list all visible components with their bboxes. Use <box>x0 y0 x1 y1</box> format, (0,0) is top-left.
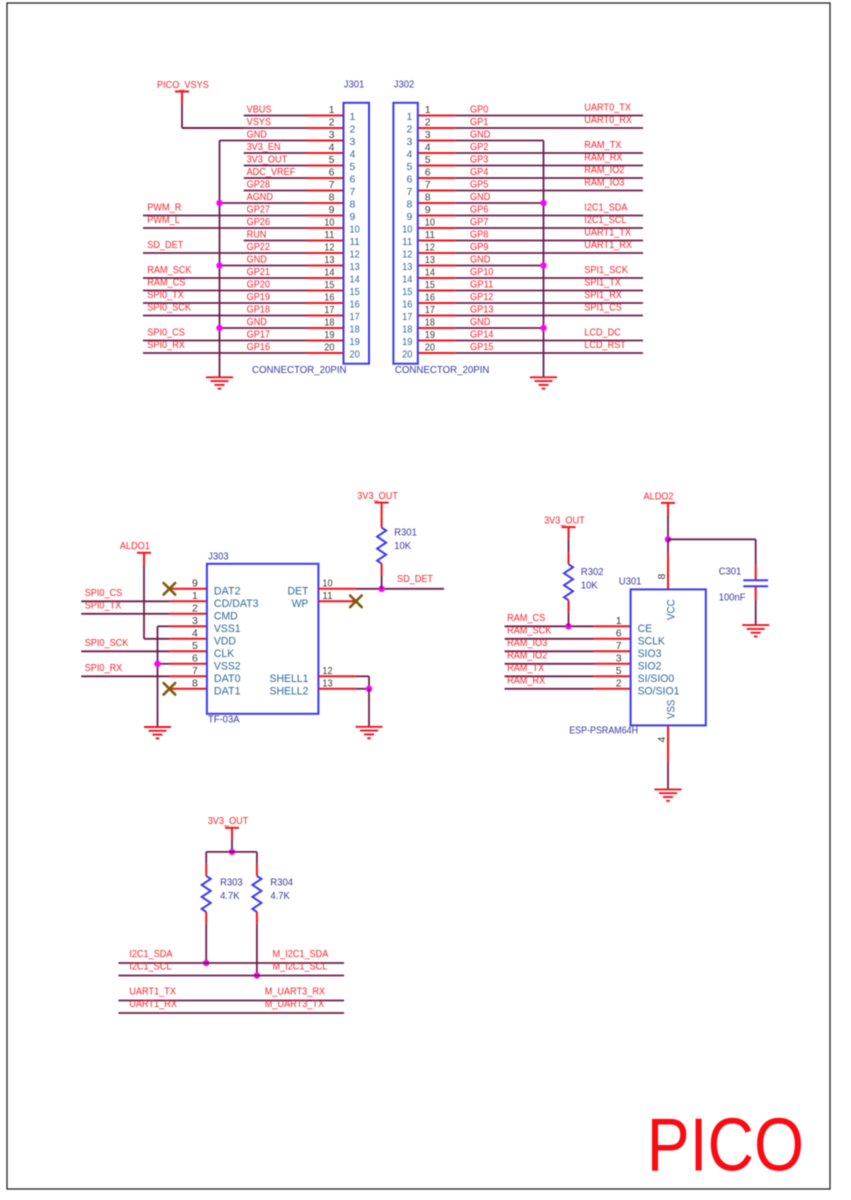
svg-text:8: 8 <box>192 677 198 689</box>
svg-text:3: 3 <box>192 615 198 627</box>
svg-text:5: 5 <box>425 154 431 166</box>
svg-text:GP21: GP21 <box>247 266 271 278</box>
svg-text:13: 13 <box>425 254 435 266</box>
svg-text:GP3: GP3 <box>470 154 488 166</box>
svg-text:ALDO2: ALDO2 <box>644 490 674 502</box>
svg-text:CONNECTOR_20PIN: CONNECTOR_20PIN <box>252 364 347 376</box>
svg-text:GP20: GP20 <box>247 279 271 291</box>
svg-text:VSS: VSS <box>666 700 678 719</box>
svg-text:SHELL1: SHELL1 <box>270 673 309 685</box>
svg-text:SIO3: SIO3 <box>638 648 662 660</box>
svg-text:J303: J303 <box>208 550 229 562</box>
svg-text:ESP-PSRAM64H: ESP-PSRAM64H <box>569 725 638 737</box>
svg-text:11: 11 <box>324 229 334 241</box>
svg-text:RUN: RUN <box>247 229 267 241</box>
svg-text:10: 10 <box>350 224 360 236</box>
svg-text:3: 3 <box>425 129 431 141</box>
svg-text:GP18: GP18 <box>247 304 271 316</box>
svg-text:GP19: GP19 <box>247 291 271 303</box>
svg-text:16: 16 <box>402 299 412 311</box>
svg-text:15: 15 <box>324 279 334 291</box>
svg-text:3: 3 <box>406 136 412 148</box>
svg-text:1: 1 <box>406 111 412 123</box>
svg-text:VSS2: VSS2 <box>214 660 241 672</box>
svg-text:3V3_OUT: 3V3_OUT <box>247 154 288 166</box>
svg-text:SPI1_SCK: SPI1_SCK <box>584 264 628 276</box>
svg-text:I2C1_SDA: I2C1_SDA <box>129 948 172 960</box>
svg-text:GP7: GP7 <box>470 216 488 228</box>
svg-text:14: 14 <box>425 267 435 279</box>
svg-text:13: 13 <box>324 254 334 266</box>
svg-text:RAM_IO3: RAM_IO3 <box>507 637 547 649</box>
svg-text:RAM_SCK: RAM_SCK <box>147 264 191 276</box>
svg-text:GP5: GP5 <box>470 179 488 191</box>
svg-text:GP12: GP12 <box>470 291 494 303</box>
svg-text:1: 1 <box>350 111 356 123</box>
svg-text:VCC: VCC <box>666 599 678 620</box>
svg-text:SPI1_TX: SPI1_TX <box>584 277 621 289</box>
svg-text:SPI0_SCK: SPI0_SCK <box>147 302 191 314</box>
svg-text:5: 5 <box>350 161 356 173</box>
svg-text:4: 4 <box>406 149 412 161</box>
svg-text:TF-03A: TF-03A <box>208 714 240 726</box>
svg-text:3: 3 <box>329 129 335 141</box>
svg-text:5: 5 <box>406 161 412 173</box>
svg-text:RAM_IO3: RAM_IO3 <box>584 177 624 189</box>
svg-text:GP11: GP11 <box>470 279 494 291</box>
svg-text:9: 9 <box>192 577 198 589</box>
svg-text:RAM_RX: RAM_RX <box>507 674 545 686</box>
svg-text:4: 4 <box>329 142 335 154</box>
svg-text:1: 1 <box>616 615 622 627</box>
svg-text:17: 17 <box>425 304 435 316</box>
svg-text:100nF: 100nF <box>719 591 746 603</box>
svg-text:AGND: AGND <box>247 191 274 203</box>
svg-text:M_UART3_RX: M_UART3_RX <box>265 986 325 998</box>
svg-text:RAM_IO2: RAM_IO2 <box>584 164 624 176</box>
svg-text:SIO2: SIO2 <box>638 660 662 672</box>
svg-text:3: 3 <box>616 652 622 664</box>
svg-text:M_I2C1_SDA: M_I2C1_SDA <box>273 948 329 960</box>
svg-text:14: 14 <box>402 274 412 286</box>
svg-text:2: 2 <box>425 117 431 129</box>
svg-text:10K: 10K <box>581 579 598 591</box>
svg-text:GND: GND <box>247 129 268 141</box>
svg-text:20: 20 <box>425 342 435 354</box>
svg-text:CE: CE <box>638 623 653 635</box>
svg-text:SCLK: SCLK <box>638 635 666 647</box>
svg-text:PWM_R: PWM_R <box>147 202 181 214</box>
svg-text:GP16: GP16 <box>247 341 271 353</box>
svg-text:19: 19 <box>324 329 334 341</box>
svg-text:3: 3 <box>350 136 356 148</box>
svg-text:3V3_EN: 3V3_EN <box>247 141 281 153</box>
svg-text:10: 10 <box>425 217 435 229</box>
svg-text:9: 9 <box>329 204 335 216</box>
svg-text:7: 7 <box>406 186 412 198</box>
svg-text:3V3_OUT: 3V3_OUT <box>357 490 398 502</box>
svg-text:12: 12 <box>322 665 332 677</box>
svg-text:RAM_CS: RAM_CS <box>507 612 545 624</box>
svg-text:14: 14 <box>350 274 360 286</box>
svg-text:5: 5 <box>192 640 198 652</box>
svg-text:18: 18 <box>324 317 334 329</box>
svg-text:8: 8 <box>656 574 668 580</box>
svg-text:SI/SIO0: SI/SIO0 <box>638 673 675 685</box>
svg-text:GP1: GP1 <box>470 116 488 128</box>
svg-text:10K: 10K <box>394 540 411 552</box>
svg-text:4: 4 <box>656 737 668 743</box>
svg-text:SO/SIO1: SO/SIO1 <box>638 685 680 697</box>
svg-text:SD_DET: SD_DET <box>147 239 183 251</box>
svg-text:19: 19 <box>402 336 412 348</box>
svg-text:GP9: GP9 <box>470 241 488 253</box>
svg-text:GND: GND <box>470 191 491 203</box>
svg-text:R302: R302 <box>581 566 604 578</box>
svg-text:RAM_IO2: RAM_IO2 <box>507 649 547 661</box>
svg-text:ALDO1: ALDO1 <box>120 540 150 552</box>
svg-text:17: 17 <box>402 311 412 323</box>
svg-text:5: 5 <box>616 665 622 677</box>
svg-text:6: 6 <box>425 167 431 179</box>
svg-text:3V3_OUT: 3V3_OUT <box>544 515 585 527</box>
svg-text:15: 15 <box>350 286 360 298</box>
svg-text:20: 20 <box>324 342 334 354</box>
svg-text:CMD: CMD <box>214 610 238 622</box>
svg-text:DAT0: DAT0 <box>214 673 241 685</box>
svg-text:6: 6 <box>406 174 412 186</box>
svg-text:1: 1 <box>192 590 198 602</box>
svg-text:PICO: PICO <box>647 1103 804 1187</box>
svg-text:19: 19 <box>425 329 435 341</box>
svg-text:6: 6 <box>329 167 335 179</box>
svg-text:R304: R304 <box>270 877 293 889</box>
svg-text:12: 12 <box>425 242 435 254</box>
svg-text:2: 2 <box>616 677 622 689</box>
svg-text:GP4: GP4 <box>470 166 488 178</box>
svg-text:12: 12 <box>324 242 334 254</box>
svg-text:18: 18 <box>425 317 435 329</box>
svg-text:13: 13 <box>402 261 412 273</box>
svg-text:SPI1_RX: SPI1_RX <box>584 289 622 301</box>
svg-text:UART1_TX: UART1_TX <box>584 227 631 239</box>
svg-text:UART0_RX: UART0_RX <box>584 114 632 126</box>
svg-text:R303: R303 <box>220 877 243 889</box>
svg-text:RAM_SCK: RAM_SCK <box>507 624 551 636</box>
svg-text:2: 2 <box>350 124 356 136</box>
svg-text:GP17: GP17 <box>247 329 271 341</box>
svg-text:8: 8 <box>329 192 335 204</box>
svg-text:GP22: GP22 <box>247 241 271 253</box>
svg-text:SPI0_SCK: SPI0_SCK <box>85 637 129 649</box>
svg-text:PWM_L: PWM_L <box>147 214 180 226</box>
svg-text:7: 7 <box>192 665 198 677</box>
svg-text:4.7K: 4.7K <box>270 890 289 902</box>
svg-text:M_UART3_TX: M_UART3_TX <box>265 998 324 1010</box>
svg-text:1: 1 <box>425 104 431 116</box>
svg-text:7: 7 <box>350 186 356 198</box>
svg-text:GND: GND <box>470 129 491 141</box>
svg-text:GND: GND <box>470 254 491 266</box>
svg-text:4: 4 <box>192 627 198 639</box>
svg-text:7: 7 <box>329 179 335 191</box>
svg-text:RAM_TX: RAM_TX <box>584 139 621 151</box>
svg-text:SPI1_CS: SPI1_CS <box>584 302 622 314</box>
svg-text:8: 8 <box>406 199 412 211</box>
svg-text:SPI0_RX: SPI0_RX <box>147 339 185 351</box>
svg-text:16: 16 <box>425 292 435 304</box>
svg-text:UART0_TX: UART0_TX <box>584 102 631 114</box>
svg-text:UART1_RX: UART1_RX <box>584 239 632 251</box>
svg-text:3V3_OUT: 3V3_OUT <box>208 815 249 827</box>
svg-text:CLK: CLK <box>214 648 235 660</box>
svg-text:13: 13 <box>322 677 332 689</box>
svg-text:VSYS: VSYS <box>247 116 271 128</box>
svg-text:RAM_CS: RAM_CS <box>147 277 185 289</box>
svg-text:DAT2: DAT2 <box>214 585 241 597</box>
svg-text:LCD_DC: LCD_DC <box>584 327 621 339</box>
svg-text:10: 10 <box>322 577 332 589</box>
svg-text:19: 19 <box>350 336 360 348</box>
svg-text:17: 17 <box>350 311 360 323</box>
svg-text:CONNECTOR_20PIN: CONNECTOR_20PIN <box>395 364 490 376</box>
svg-text:15: 15 <box>402 286 412 298</box>
svg-text:LCD_RST: LCD_RST <box>584 339 626 351</box>
svg-text:J301: J301 <box>344 78 365 90</box>
svg-text:GP13: GP13 <box>470 304 494 316</box>
svg-text:ADC_VREF: ADC_VREF <box>247 166 296 178</box>
svg-text:9: 9 <box>406 211 412 223</box>
svg-text:GP10: GP10 <box>470 266 494 278</box>
svg-text:GP26: GP26 <box>247 216 271 228</box>
svg-text:10: 10 <box>402 224 412 236</box>
svg-text:I2C1_SDA: I2C1_SDA <box>584 202 627 214</box>
svg-text:9: 9 <box>350 211 356 223</box>
svg-text:6: 6 <box>192 652 198 664</box>
svg-text:DET: DET <box>288 585 309 597</box>
svg-text:GP14: GP14 <box>470 329 494 341</box>
svg-text:15: 15 <box>425 279 435 291</box>
svg-text:GP8: GP8 <box>470 229 488 241</box>
svg-text:1: 1 <box>329 104 335 116</box>
svg-text:GP27: GP27 <box>247 204 271 216</box>
svg-text:R301: R301 <box>394 527 417 539</box>
svg-text:UART1_RX: UART1_RX <box>129 998 177 1010</box>
svg-text:I2C1_SCL: I2C1_SCL <box>129 961 171 973</box>
svg-text:4.7K: 4.7K <box>220 890 239 902</box>
svg-text:7: 7 <box>616 640 622 652</box>
svg-text:WP: WP <box>292 598 309 610</box>
svg-text:RAM_TX: RAM_TX <box>507 662 544 674</box>
svg-text:VSS1: VSS1 <box>214 623 241 635</box>
svg-text:20: 20 <box>402 349 412 361</box>
svg-text:13: 13 <box>350 261 360 273</box>
svg-text:14: 14 <box>324 267 334 279</box>
svg-text:C301: C301 <box>719 566 742 578</box>
svg-text:2: 2 <box>192 602 198 614</box>
svg-text:8: 8 <box>350 199 356 211</box>
svg-text:RAM_RX: RAM_RX <box>584 152 622 164</box>
svg-text:2: 2 <box>329 117 335 129</box>
svg-text:PICO_VSYS: PICO_VSYS <box>157 79 209 91</box>
svg-text:18: 18 <box>402 324 412 336</box>
svg-text:I2C1_SCL: I2C1_SCL <box>584 214 626 226</box>
svg-text:12: 12 <box>350 249 360 261</box>
svg-text:11: 11 <box>402 236 412 248</box>
svg-text:SPI0_TX: SPI0_TX <box>85 599 122 611</box>
svg-text:6: 6 <box>616 627 622 639</box>
svg-text:M_I2C1_SCL: M_I2C1_SCL <box>273 961 328 973</box>
svg-text:GND: GND <box>247 254 268 266</box>
svg-text:SPI0_CS: SPI0_CS <box>147 327 185 339</box>
svg-text:16: 16 <box>350 299 360 311</box>
svg-text:17: 17 <box>324 304 334 316</box>
svg-text:4: 4 <box>350 149 356 161</box>
svg-text:5: 5 <box>329 154 335 166</box>
svg-text:SPI0_RX: SPI0_RX <box>85 662 123 674</box>
svg-text:4: 4 <box>425 142 431 154</box>
svg-text:9: 9 <box>425 204 431 216</box>
svg-text:11: 11 <box>425 229 435 241</box>
svg-text:U301: U301 <box>619 576 642 588</box>
svg-text:CD/DAT3: CD/DAT3 <box>214 598 259 610</box>
svg-text:SHELL2: SHELL2 <box>270 685 309 697</box>
svg-text:8: 8 <box>425 192 431 204</box>
svg-text:J302: J302 <box>394 78 415 90</box>
svg-text:SD_DET: SD_DET <box>397 573 433 585</box>
svg-text:UART1_TX: UART1_TX <box>129 986 176 998</box>
svg-text:11: 11 <box>322 590 332 602</box>
svg-text:18: 18 <box>350 324 360 336</box>
svg-text:GND: GND <box>470 316 491 328</box>
svg-text:GP6: GP6 <box>470 204 488 216</box>
svg-text:GND: GND <box>247 316 268 328</box>
svg-text:GP0: GP0 <box>470 104 488 116</box>
svg-text:12: 12 <box>402 249 412 261</box>
svg-text:GP28: GP28 <box>247 179 271 191</box>
svg-text:VDD: VDD <box>214 635 236 647</box>
svg-text:20: 20 <box>350 349 360 361</box>
svg-text:DAT1: DAT1 <box>214 685 241 697</box>
svg-text:6: 6 <box>350 174 356 186</box>
svg-text:7: 7 <box>425 179 431 191</box>
svg-text:VBUS: VBUS <box>247 104 272 116</box>
svg-text:10: 10 <box>324 217 334 229</box>
svg-text:SPI0_CS: SPI0_CS <box>85 587 123 599</box>
svg-text:2: 2 <box>406 124 412 136</box>
svg-text:GP2: GP2 <box>470 141 488 153</box>
svg-text:GP15: GP15 <box>470 341 494 353</box>
svg-text:SPI0_TX: SPI0_TX <box>147 289 184 301</box>
svg-text:16: 16 <box>324 292 334 304</box>
svg-text:11: 11 <box>350 236 360 248</box>
